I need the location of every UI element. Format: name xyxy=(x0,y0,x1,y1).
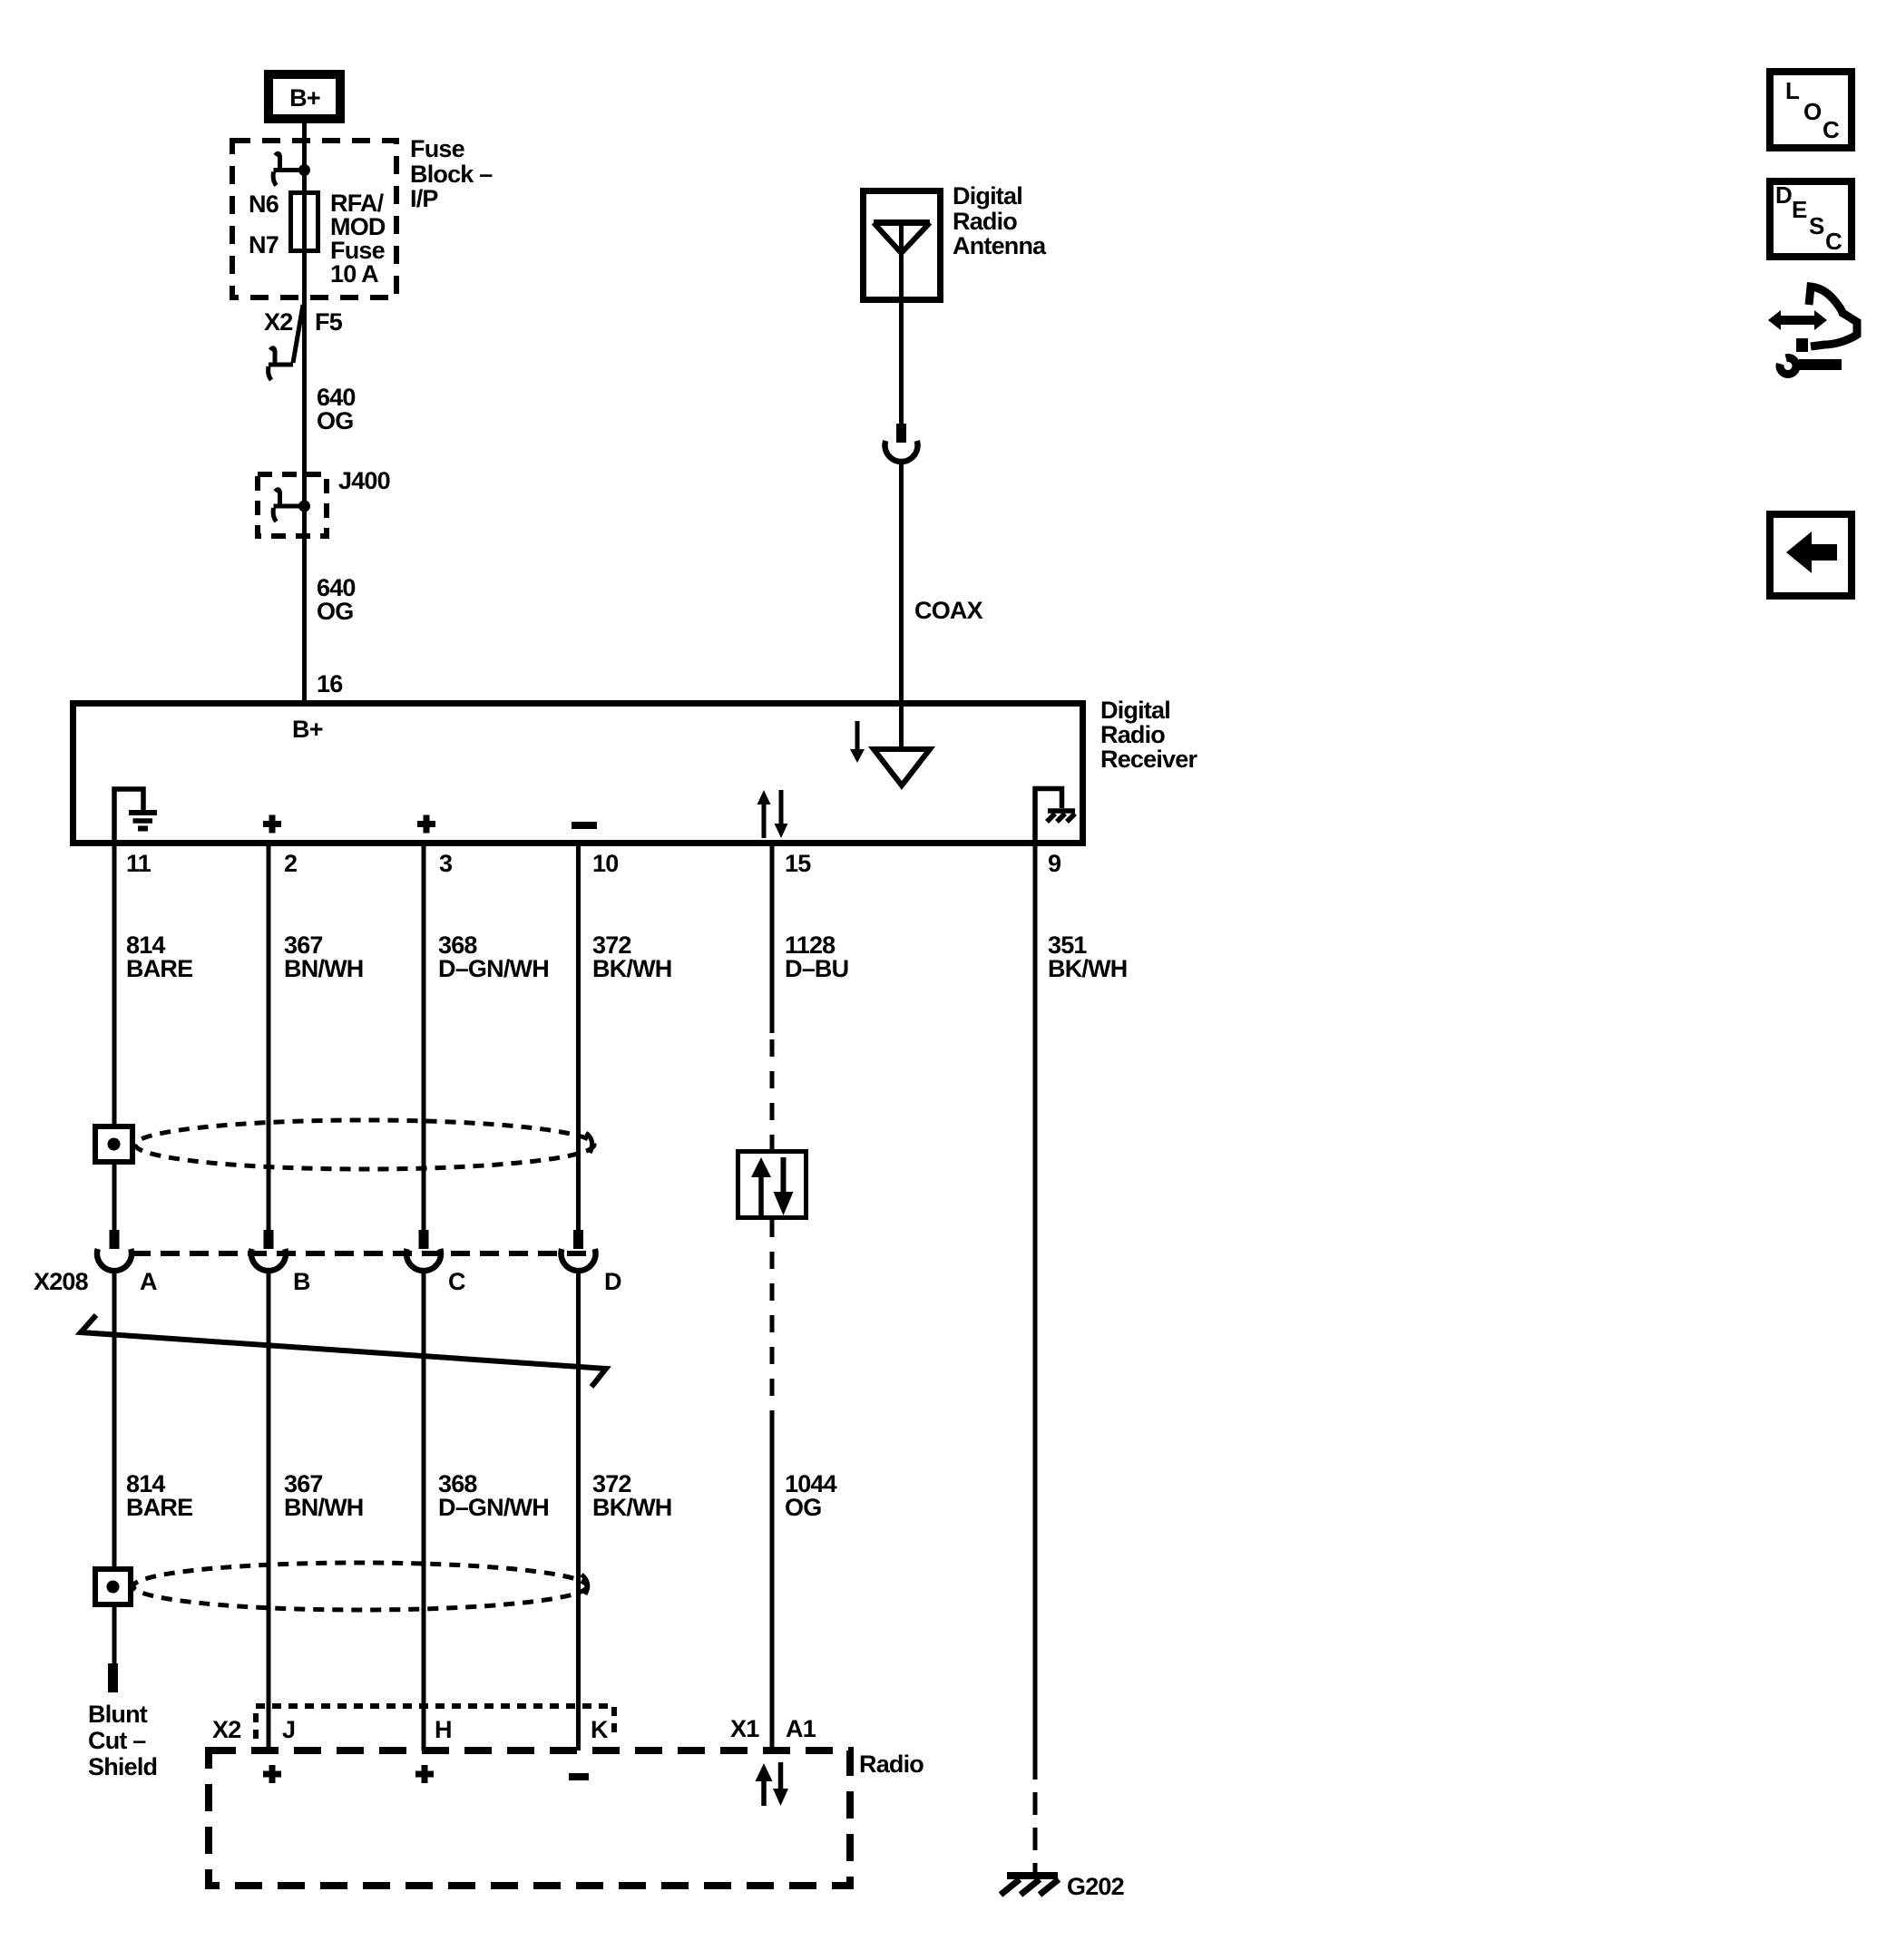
svg-text:BARE: BARE xyxy=(126,955,192,982)
svg-text:10 A: 10 A xyxy=(330,260,378,288)
svg-text:Antenna: Antenna xyxy=(953,232,1047,259)
svg-text:9: 9 xyxy=(1048,850,1061,877)
svg-text:C: C xyxy=(1823,116,1840,143)
svg-text:Blunt: Blunt xyxy=(88,1701,148,1728)
svg-text:BK/WH: BK/WH xyxy=(592,955,671,982)
svg-text:D–BU: D–BU xyxy=(785,955,848,982)
svg-text:OG: OG xyxy=(317,407,353,434)
svg-text:15: 15 xyxy=(785,850,811,877)
svg-text:3: 3 xyxy=(439,850,453,877)
svg-text:X1: X1 xyxy=(730,1715,759,1742)
svg-text:N6: N6 xyxy=(249,190,279,218)
svg-text:X2: X2 xyxy=(264,308,292,336)
svg-text:A: A xyxy=(140,1268,157,1295)
svg-text:D: D xyxy=(604,1268,621,1295)
svg-text:Digital: Digital xyxy=(953,182,1022,210)
svg-text:10: 10 xyxy=(592,850,618,877)
svg-text:16: 16 xyxy=(317,670,343,697)
svg-text:BK/WH: BK/WH xyxy=(1048,955,1127,982)
svg-text:Digital: Digital xyxy=(1100,697,1170,724)
svg-text:D: D xyxy=(1775,181,1793,209)
svg-text:Block –: Block – xyxy=(410,161,493,188)
svg-text:11: 11 xyxy=(126,850,151,877)
svg-text:A1: A1 xyxy=(786,1715,816,1742)
svg-text:X208: X208 xyxy=(34,1268,89,1295)
svg-text:Fuse: Fuse xyxy=(410,135,465,162)
svg-text:C: C xyxy=(448,1268,465,1295)
svg-text:Cut –: Cut – xyxy=(88,1727,146,1754)
svg-text:S: S xyxy=(1809,212,1824,239)
svg-text:B+: B+ xyxy=(289,84,320,112)
svg-text:L: L xyxy=(1785,77,1800,104)
svg-text:J: J xyxy=(282,1716,295,1743)
svg-text:X2: X2 xyxy=(212,1716,240,1743)
svg-text:Radio: Radio xyxy=(953,208,1017,235)
svg-text:N7: N7 xyxy=(249,231,279,258)
svg-text:O: O xyxy=(1803,98,1822,125)
svg-text:J400: J400 xyxy=(338,467,390,494)
svg-text:Shield: Shield xyxy=(88,1753,157,1780)
svg-text:BN/WH: BN/WH xyxy=(284,1494,363,1521)
svg-text:K: K xyxy=(591,1716,609,1743)
svg-text:B+: B+ xyxy=(292,716,323,743)
svg-text:H: H xyxy=(435,1716,452,1743)
svg-text:G202: G202 xyxy=(1067,1873,1124,1900)
svg-text:C: C xyxy=(1825,228,1842,255)
svg-text:OG: OG xyxy=(785,1494,821,1521)
svg-text:B: B xyxy=(293,1268,310,1295)
svg-text:2: 2 xyxy=(284,850,297,877)
svg-text:F5: F5 xyxy=(315,308,343,336)
svg-text:Radio: Radio xyxy=(859,1750,924,1778)
svg-text:E: E xyxy=(1792,196,1807,223)
svg-text:BK/WH: BK/WH xyxy=(592,1494,671,1521)
svg-text:Radio: Radio xyxy=(1100,721,1165,748)
svg-text:D–GN/WH: D–GN/WH xyxy=(438,955,549,982)
svg-text:I/P: I/P xyxy=(410,185,438,212)
svg-text:D–GN/WH: D–GN/WH xyxy=(438,1494,549,1521)
svg-text:BARE: BARE xyxy=(126,1494,192,1521)
svg-text:BN/WH: BN/WH xyxy=(284,955,363,982)
svg-text:OG: OG xyxy=(317,598,353,625)
svg-text:COAX: COAX xyxy=(914,597,983,624)
svg-text:Receiver: Receiver xyxy=(1100,746,1197,773)
